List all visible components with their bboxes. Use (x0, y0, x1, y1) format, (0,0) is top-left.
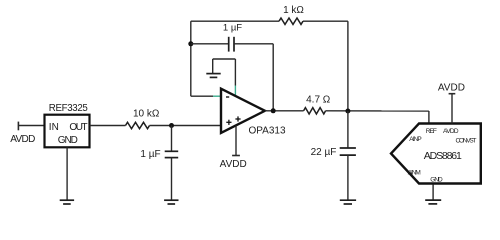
node output junction dot (271, 108, 276, 113)
capacitor C2 1 uF feedback (229, 37, 234, 52)
port AVDD top right tick (449, 93, 456, 95)
wire opamp V+ supply down (235, 125, 237, 155)
svg-text:AVDD: AVDD (220, 159, 247, 170)
node B junction dot (345, 109, 350, 114)
svg-text:AVDD: AVDD (443, 128, 459, 135)
svg-text:AINP: AINP (409, 136, 422, 143)
wire node to C2 left (191, 43, 229, 45)
wire resistor to node A (150, 125, 221, 127)
svg-text:1 µF: 1 µF (223, 23, 242, 34)
svg-text:ADS8861: ADS8861 (424, 150, 462, 162)
ground opamp V- (206, 74, 220, 78)
wire ground stem (212, 59, 214, 74)
ground REF3325 (60, 200, 74, 204)
svg-text:1 µF: 1 µF (140, 149, 160, 160)
svg-text:REF3325: REF3325 (49, 103, 88, 114)
ADS8861 U3 polygon (391, 124, 481, 184)
svg-text:22 µF: 22 µF (311, 147, 337, 158)
node A junction dot (169, 123, 174, 128)
wire minus input black part (191, 95, 213, 97)
wire opamp V- ground horizontal (213, 58, 236, 60)
svg-text:CONVST: CONVST (456, 138, 477, 145)
opamp minus input mark (226, 96, 229, 98)
svg-text:OPA313: OPA313 (248, 126, 285, 137)
wire top feedback to 1k (191, 20, 279, 22)
wire REF3325 GND down (66, 147, 68, 200)
resistor R1 10 kOhm (126, 122, 150, 128)
wire V- vertical black part (234, 59, 236, 86)
svg-text:1 kΩ: 1 kΩ (283, 5, 304, 16)
wire right feedback vertical (347, 21, 349, 111)
port AVDD left tick (17, 122, 19, 131)
svg-text:10 kΩ: 10 kΩ (133, 109, 160, 120)
wire node A down to C1 (171, 126, 173, 152)
svg-text:GND: GND (58, 135, 78, 146)
node feedback junction dot (188, 41, 193, 46)
svg-text:REF: REF (426, 128, 437, 135)
capacitor C1 1 uF (165, 151, 179, 157)
wire REF3325 OUT to resistor (90, 125, 126, 127)
wire output vertical down (272, 44, 274, 111)
port AVDD opamp tick (232, 155, 240, 157)
ground ADS8861 (425, 200, 441, 204)
svg-text:IN: IN (49, 122, 59, 133)
capacitor C3 22 uF (340, 148, 356, 155)
svg-text:AVDD: AVDD (10, 134, 35, 145)
op-amp U2 OPA313 triangle (221, 89, 265, 133)
svg-text:OUT: OUT (69, 122, 87, 133)
wire V- vertical green part (234, 86, 236, 97)
svg-text:GND: GND (430, 177, 443, 184)
wire 1k to right vertical (303, 20, 348, 22)
REF3325 U1 box (45, 115, 90, 148)
svg-text:AVDD: AVDD (438, 83, 465, 94)
resistor R2 1 kOhm (279, 18, 303, 24)
wire AVDD port to REF3325 IN (18, 125, 44, 127)
opamp plus supply mark (235, 116, 240, 121)
wire AVDD down to ADS (451, 94, 453, 124)
ground C1 (164, 200, 178, 204)
wire opamp output (265, 110, 304, 112)
svg-text:AINM: AINM (408, 170, 421, 177)
wire C2 right to output vertical (234, 43, 273, 45)
wire 4.7 to node B (326, 110, 429, 112)
svg-text:4.7 Ω: 4.7 Ω (306, 94, 331, 105)
wire C3 to ground (347, 155, 349, 200)
wire ADS GND down (432, 185, 434, 201)
opamp plus input mark (226, 120, 231, 125)
resistor R3 4.7 Ohm (304, 108, 326, 114)
wire node B down to C3 (347, 111, 349, 148)
wire REF pin down (428, 111, 430, 124)
wire minus input green part (213, 95, 221, 97)
wire C1 to ground (171, 158, 173, 201)
ground C3 (340, 200, 356, 204)
wire left feedback vertical (190, 21, 192, 96)
